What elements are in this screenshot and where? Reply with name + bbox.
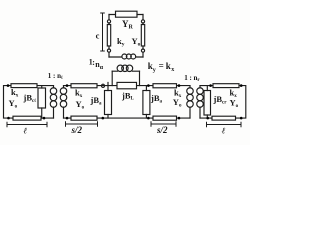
- svg-text:y: y: [153, 68, 156, 74]
- svg-text:ℓ: ℓ: [222, 126, 226, 136]
- svg-text:c: c: [96, 30, 100, 40]
- svg-text:x: x: [171, 67, 174, 73]
- svg-text:s/2: s/2: [156, 125, 168, 135]
- svg-text:1 : nℓ: 1 : nℓ: [48, 72, 63, 81]
- svg-text:s/2: s/2: [71, 125, 83, 135]
- svg-text:k: k: [166, 61, 171, 71]
- svg-text:ℓ: ℓ: [24, 126, 28, 136]
- svg-text:=: =: [159, 61, 164, 71]
